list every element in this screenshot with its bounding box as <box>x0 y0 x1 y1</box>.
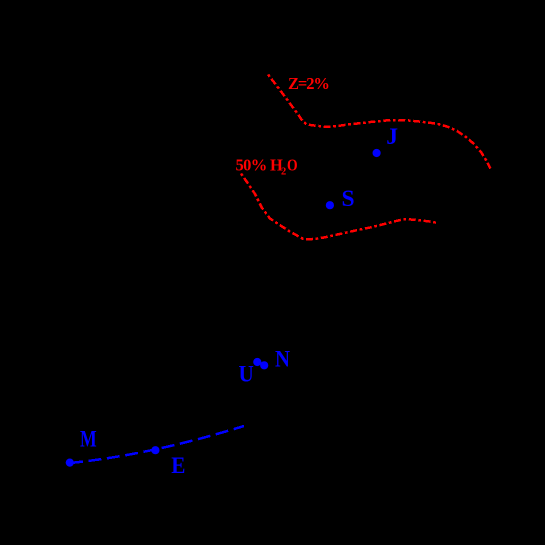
point N (Neptune) <box>260 361 268 369</box>
svg-text:Z=2%: Z=2% <box>288 74 329 93</box>
svg-text:M: M <box>80 427 97 453</box>
svg-text:2: 2 <box>281 167 286 178</box>
svg-text:S: S <box>342 186 355 212</box>
svg-text:50%: 50% <box>236 155 267 174</box>
curve 50% H2O (lower red dash-dot boundary) <box>241 174 437 240</box>
point J (Jupiter) <box>373 149 381 157</box>
svg-text:U: U <box>239 361 254 387</box>
svg-text:N: N <box>275 347 290 373</box>
point E (Earth) <box>151 446 159 454</box>
point S (Saturn) <box>326 201 334 209</box>
point U (Uranus) <box>253 358 261 366</box>
svg-text:E: E <box>171 453 185 479</box>
point M (Mars) <box>66 459 74 467</box>
curve Z=2% (upper red dash-dot boundary) <box>268 75 491 169</box>
svg-text:O: O <box>287 155 298 174</box>
blue dashed curve (terrestrial sequence M-E) <box>70 426 244 463</box>
svg-text:J: J <box>386 124 398 150</box>
